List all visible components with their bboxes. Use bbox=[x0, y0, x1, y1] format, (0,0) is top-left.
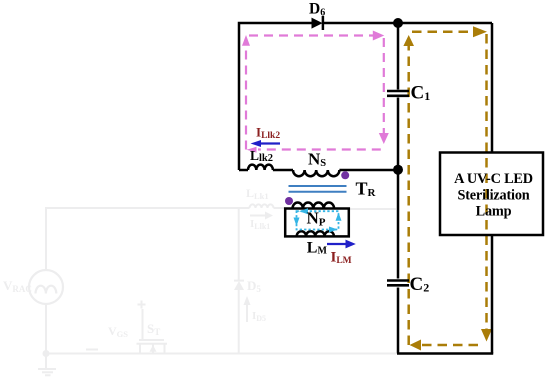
bottom wire (faded) bbox=[46, 353, 396, 355]
load box border: A UV-C LED Sterilization Lamp bbox=[440, 153, 543, 236]
transformer core TR bbox=[289, 186, 347, 192]
ground bbox=[38, 354, 56, 376]
pink loop right edge bbox=[383, 38, 385, 135]
arrow ID5 bbox=[246, 303, 248, 322]
winding Np top (4 bumps up, above box) bbox=[293, 203, 335, 209]
pink arrow up (left edge top) bbox=[242, 35, 250, 46]
transistor ST bbox=[137, 309, 168, 354]
load box fill bbox=[440, 153, 543, 236]
wire VAC top to node A bbox=[46, 208, 250, 270]
olive arrow down (right edge bottom) bbox=[481, 329, 492, 342]
blue arrow ILlk2 (points left) bbox=[251, 140, 281, 147]
pink arrow left (bottom edge left) bbox=[247, 147, 257, 153]
source Vrac sine symbol bbox=[36, 286, 57, 294]
winding Ns (4 bumps down) bbox=[293, 170, 339, 176]
cyan arrow up (right edge) bbox=[336, 213, 342, 221]
wire Np right to output node bbox=[350, 208, 396, 210]
pink arrow right (top edge right) bbox=[373, 31, 385, 41]
wire D5 branch bbox=[238, 208, 240, 354]
pink loop left edge bbox=[245, 45, 247, 150]
capacitor C1 bbox=[387, 91, 409, 96]
olive loop bottom edge bbox=[413, 344, 478, 347]
cyan arrow left (top edge) bbox=[299, 208, 308, 214]
wire top-right down to load bbox=[491, 23, 494, 153]
pink loop top edge bbox=[249, 34, 374, 36]
diode D5 bbox=[234, 281, 244, 290]
cyan circulating-current loop inside Np box bbox=[297, 211, 339, 229]
bottom wire bbox=[397, 352, 493, 355]
arrow ILlk1 bbox=[250, 215, 266, 217]
olive arrow up (left edge top) bbox=[403, 35, 414, 46]
pink arrow down (right edge bottom) bbox=[379, 133, 389, 144]
top wire bbox=[239, 23, 492, 170]
olive loop left edge bbox=[407, 42, 410, 345]
polarity dot Ns bbox=[341, 171, 349, 179]
olive loop top edge bbox=[412, 31, 474, 34]
cyan arrow down (left edge) bbox=[294, 218, 300, 227]
polarity dot Np bbox=[285, 197, 293, 205]
secondary wire with LLk2 bbox=[239, 169, 248, 172]
minus sign bbox=[86, 349, 98, 351]
junction node top bbox=[393, 18, 403, 28]
plus sign bbox=[138, 301, 146, 309]
olive loop right edge bbox=[485, 34, 488, 332]
center branch wire with C1 C2 gaps bbox=[397, 23, 400, 354]
olive arrow right (top edge right) bbox=[473, 26, 487, 37]
source Vrac circle bbox=[29, 270, 63, 304]
junction ground node bbox=[43, 350, 50, 357]
pink loop bottom edge bbox=[258, 148, 381, 150]
junction node mid bbox=[393, 165, 403, 175]
inductor LLk1 bbox=[250, 204, 274, 208]
wire load bottom to bottom wire bbox=[491, 235, 494, 354]
cyan arrow right (bottom edge) bbox=[329, 227, 338, 233]
wire LLk2 to Ns bbox=[273, 169, 293, 172]
winding Np / Lm block bbox=[285, 203, 349, 237]
winding Lm bottom (4 bumps up, inside box on bottom edge) bbox=[297, 231, 334, 236]
wire Ns to junction bbox=[339, 169, 398, 172]
svg-text:Sterilization: Sterilization bbox=[457, 187, 529, 203]
svg-text:Lamp: Lamp bbox=[476, 204, 512, 220]
Np-Lm box bbox=[285, 209, 349, 237]
wire LLk1 to Np bbox=[274, 207, 286, 209]
blue arrow ILm (points right) bbox=[327, 240, 356, 249]
wire VAC bottom to ground node bbox=[45, 304, 47, 354]
capacitor C2 bbox=[387, 281, 409, 286]
inductor LLk2 bbox=[248, 165, 273, 170]
diode D6 bbox=[312, 18, 323, 29]
ST body arrow bbox=[150, 345, 157, 352]
svg-text:A UV-C LED: A UV-C LED bbox=[454, 171, 533, 187]
olive arrow left (bottom edge left) bbox=[410, 340, 422, 351]
